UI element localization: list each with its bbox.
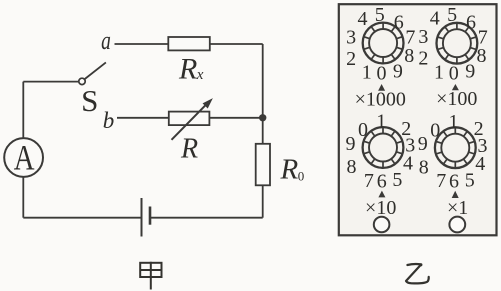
dial x10 digits <box>346 111 416 193</box>
svg-text:3: 3 <box>418 26 428 48</box>
svg-text:2: 2 <box>346 48 356 70</box>
svg-text:0: 0 <box>298 169 305 184</box>
svg-text:4: 4 <box>403 153 413 175</box>
resistor R0 <box>256 144 270 186</box>
rheostat R arrow <box>172 99 212 140</box>
battery short plate <box>149 207 152 225</box>
svg-text:0: 0 <box>358 119 368 141</box>
dial x1 pointer arrow <box>452 191 459 198</box>
node a label <box>101 26 111 54</box>
svg-text:7: 7 <box>364 170 374 192</box>
dial x1 knob <box>435 127 476 168</box>
dial x10 knob <box>363 127 404 168</box>
svg-text:×1: ×1 <box>447 197 468 219</box>
svg-text:6: 6 <box>377 170 387 192</box>
ammeter A <box>4 138 43 177</box>
switch S pivot <box>79 78 85 84</box>
svg-text:×10: ×10 <box>365 197 396 219</box>
wire R to right rail <box>209 117 262 119</box>
svg-text:1: 1 <box>362 62 372 84</box>
battery long plate <box>141 198 143 237</box>
label R0 <box>280 154 305 186</box>
switch S lever <box>85 62 106 79</box>
svg-text:4: 4 <box>430 8 440 30</box>
wire b to R <box>117 117 169 119</box>
svg-text:×100: ×100 <box>436 88 477 110</box>
resistor Rx <box>168 37 210 50</box>
svg-text:0: 0 <box>430 119 440 141</box>
label Rx <box>178 53 204 86</box>
wire Rx to right rail <box>210 43 263 45</box>
svg-text:9: 9 <box>346 133 356 155</box>
svg-text:A: A <box>14 139 35 179</box>
svg-text:R: R <box>280 154 299 186</box>
dial x1000 knob <box>363 23 404 64</box>
svg-text:4: 4 <box>358 8 368 30</box>
svg-text:1: 1 <box>449 111 459 133</box>
terminal right <box>449 217 465 233</box>
svg-text:1: 1 <box>434 61 444 83</box>
svg-text:5: 5 <box>465 169 475 191</box>
dial x100 digits <box>418 4 487 85</box>
wire ammeter bottom to corner <box>22 177 24 218</box>
svg-text:R: R <box>178 53 197 86</box>
svg-text:0: 0 <box>377 63 387 85</box>
svg-text:4: 4 <box>475 153 485 175</box>
svg-text:6: 6 <box>466 11 476 33</box>
svg-text:9: 9 <box>418 133 428 155</box>
svg-text:5: 5 <box>447 4 457 26</box>
svg-text:×1000: ×1000 <box>355 89 406 111</box>
wire bottom left to battery <box>23 217 141 219</box>
svg-text:6: 6 <box>449 171 459 193</box>
svg-text:7: 7 <box>436 170 446 192</box>
svg-text:9: 9 <box>465 60 475 82</box>
label yi <box>406 263 429 283</box>
resistance box border <box>339 4 497 235</box>
wire right rail vertical <box>262 44 264 144</box>
svg-text:5: 5 <box>375 4 385 26</box>
svg-text:6: 6 <box>394 12 404 34</box>
dial x100 knob <box>437 23 478 64</box>
wire R0 to bottom <box>262 185 264 217</box>
svg-text:1: 1 <box>376 111 386 133</box>
svg-text:9: 9 <box>393 61 403 83</box>
dial x1000 digits <box>346 4 415 85</box>
junction node <box>259 114 266 121</box>
svg-text:2: 2 <box>418 48 428 70</box>
wire corner to switch <box>23 81 79 83</box>
svg-text:3: 3 <box>346 26 356 48</box>
svg-text:8: 8 <box>419 156 429 178</box>
svg-text:S: S <box>81 83 98 118</box>
svg-text:a: a <box>101 26 111 54</box>
rheostat R box <box>169 112 210 126</box>
svg-text:8: 8 <box>347 156 357 178</box>
label jia <box>140 262 161 290</box>
dial x1 digits <box>418 111 488 193</box>
ammeter label A <box>14 139 35 179</box>
svg-text:8: 8 <box>477 45 487 67</box>
dial x10 pointer arrow <box>378 191 385 198</box>
svg-text:b: b <box>103 108 115 133</box>
svg-text:8: 8 <box>404 45 414 67</box>
svg-text:5: 5 <box>392 169 402 191</box>
wire a to Rx <box>115 43 169 45</box>
svg-text:R: R <box>180 134 198 165</box>
dial x1000 pointer arrow <box>378 84 385 91</box>
wire ammeter top to corner <box>22 82 24 139</box>
wire battery to bottom right <box>150 217 263 219</box>
terminal left <box>374 217 390 233</box>
dial x100 pointer arrow <box>452 84 459 90</box>
svg-text:0: 0 <box>449 62 459 84</box>
svg-text:x: x <box>196 67 204 83</box>
